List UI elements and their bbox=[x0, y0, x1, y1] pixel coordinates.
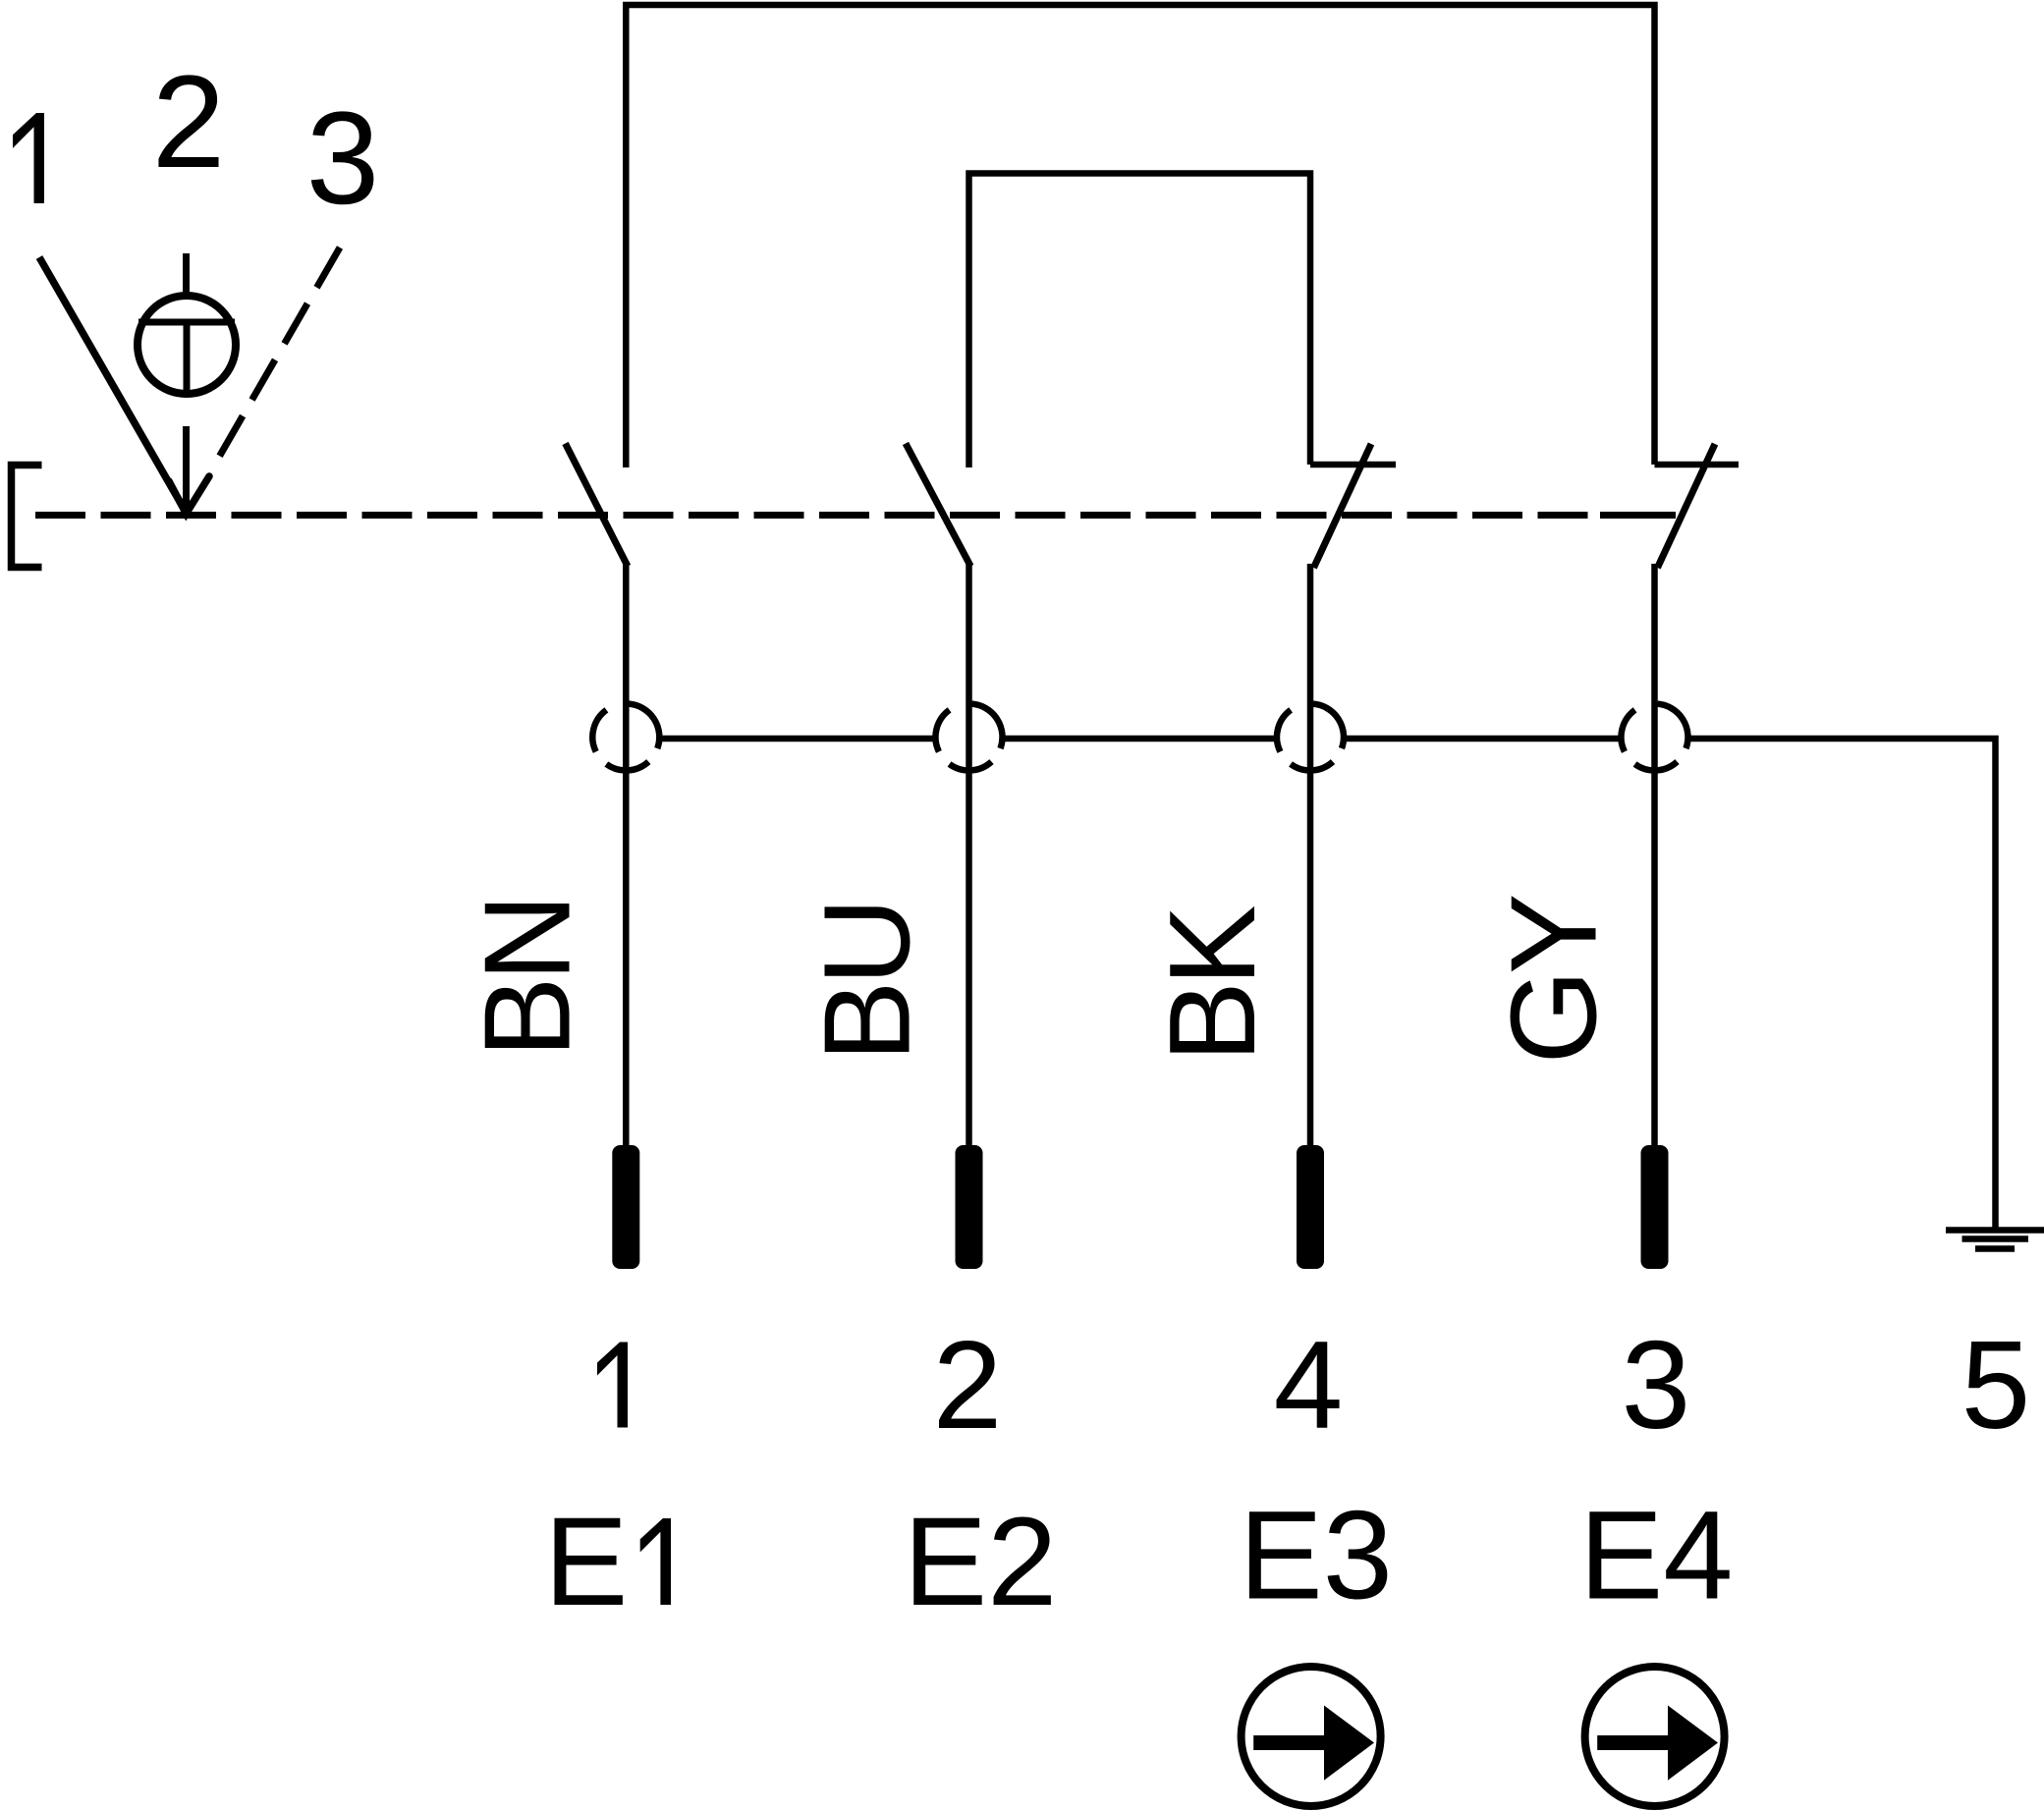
direction indicator circle under E4 bbox=[1585, 1667, 1725, 1806]
contact E2 (NO) blade bbox=[906, 444, 970, 567]
svg-text:2: 2 bbox=[933, 1315, 1003, 1454]
wire: bus socket 2 to socket 3 bbox=[1002, 736, 1278, 742]
selector arrowhead bbox=[169, 476, 209, 514]
svg-text:E3: E3 bbox=[1239, 1486, 1393, 1626]
actuation dashed line bbox=[35, 512, 1600, 519]
actuation dashed line final dash bbox=[1600, 512, 1676, 519]
position 2 selector line lower segment bbox=[183, 426, 190, 512]
contact E4 (NC) seat bbox=[1655, 462, 1740, 468]
connection point socket 2 bbox=[935, 704, 1002, 771]
contact E1 (NO) blade bbox=[566, 444, 629, 567]
svg-text:4: 4 bbox=[1274, 1315, 1344, 1454]
svg-text:3: 3 bbox=[306, 85, 380, 232]
svg-text:E: E bbox=[544, 1492, 628, 1632]
pin number 1 bbox=[597, 1343, 628, 1428]
svg-text:BU: BU bbox=[801, 903, 936, 1062]
contact E4 (NC) blade bbox=[1658, 444, 1716, 568]
svg-text:2: 2 bbox=[152, 49, 226, 195]
svg-text:5: 5 bbox=[1961, 1315, 2031, 1454]
wire: bus socket 1 to socket 2 bbox=[659, 736, 936, 742]
svg-text:GY: GY bbox=[1487, 896, 1623, 1064]
position 1 selector line (solid) bbox=[39, 257, 187, 513]
terminal 3 pin body bbox=[1641, 1145, 1669, 1269]
contact E3 (NC) seat bbox=[1310, 462, 1396, 468]
svg-text:E2: E2 bbox=[904, 1492, 1058, 1632]
svg-text:E4: E4 bbox=[1579, 1486, 1734, 1626]
detent symbol chord bbox=[138, 319, 235, 326]
position label 1 bbox=[13, 113, 44, 203]
direction indicator arrow under E4 bbox=[1597, 1706, 1718, 1781]
connection point socket 3 bbox=[1277, 704, 1344, 771]
connection point socket 1 bbox=[592, 704, 659, 771]
connection point socket 4 bbox=[1621, 704, 1687, 771]
wire: outer loop from contact E1 top over to contact E4 top bbox=[626, 5, 1654, 467]
terminal 2 pin body bbox=[956, 1145, 983, 1269]
ground symbol bar 3 bbox=[1975, 1245, 2015, 1252]
terminal 4 pin body bbox=[1297, 1145, 1324, 1269]
contact E3 (NC) blade bbox=[1314, 444, 1372, 568]
wire: E1 lead down to terminal 1 bbox=[623, 564, 630, 1145]
position 2 selector line upper segment bbox=[183, 253, 190, 294]
wire: E2 lead down to terminal 2 bbox=[966, 564, 972, 1145]
wire: bus socket 3 to socket 4 bbox=[1344, 736, 1623, 742]
detent symbol stem bbox=[184, 322, 191, 395]
position 3 selector line (dashed) bbox=[216, 247, 340, 463]
direction indicator circle under E3 bbox=[1242, 1667, 1381, 1806]
ground symbol bar 1 bbox=[1946, 1227, 2044, 1234]
detent symbol circle bbox=[138, 296, 236, 394]
svg-text:3: 3 bbox=[1622, 1315, 1691, 1454]
svg-text:BN: BN bbox=[461, 899, 596, 1058]
ground symbol bar 2 bbox=[1962, 1235, 2029, 1242]
wire: E3 lead down to terminal 4 bbox=[1307, 564, 1314, 1145]
wire: bus socket 4 to ground drop bbox=[1687, 739, 1996, 1230]
terminal 1 pin body bbox=[612, 1145, 639, 1269]
svg-text:BK: BK bbox=[1145, 905, 1281, 1063]
mechanical coupling bracket bbox=[12, 466, 42, 568]
direction indicator arrow under E3 bbox=[1253, 1706, 1374, 1781]
wire: E4 lead down to terminal 3 bbox=[1651, 564, 1658, 1145]
wire: inner loop from contact E2 top over to contact E3 top bbox=[969, 174, 1311, 468]
